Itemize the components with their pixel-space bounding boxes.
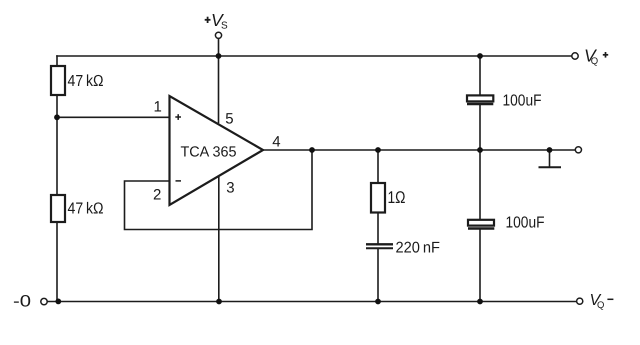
svg-text:TCA 365: TCA 365 [181,144,237,160]
svg-text:5: 5 [225,111,233,128]
svg-text:S: S [221,21,228,32]
svg-text:1: 1 [154,98,162,115]
svg-text:1Ω: 1Ω [388,188,406,207]
svg-text:100uF: 100uF [506,214,545,231]
svg-text:Q: Q [591,56,598,67]
svg-text:100uF: 100uF [503,93,542,110]
svg-text:220 nF: 220 nF [396,239,441,256]
svg-text:2: 2 [153,186,161,203]
svg-text:3: 3 [226,179,234,196]
svg-text:4: 4 [272,134,280,151]
svg-text:47 kΩ: 47 kΩ [68,73,104,90]
svg-text:Q: Q [597,300,604,311]
svg-text:47 kΩ: 47 kΩ [68,201,104,218]
svg-text:-0: -0 [13,293,31,311]
